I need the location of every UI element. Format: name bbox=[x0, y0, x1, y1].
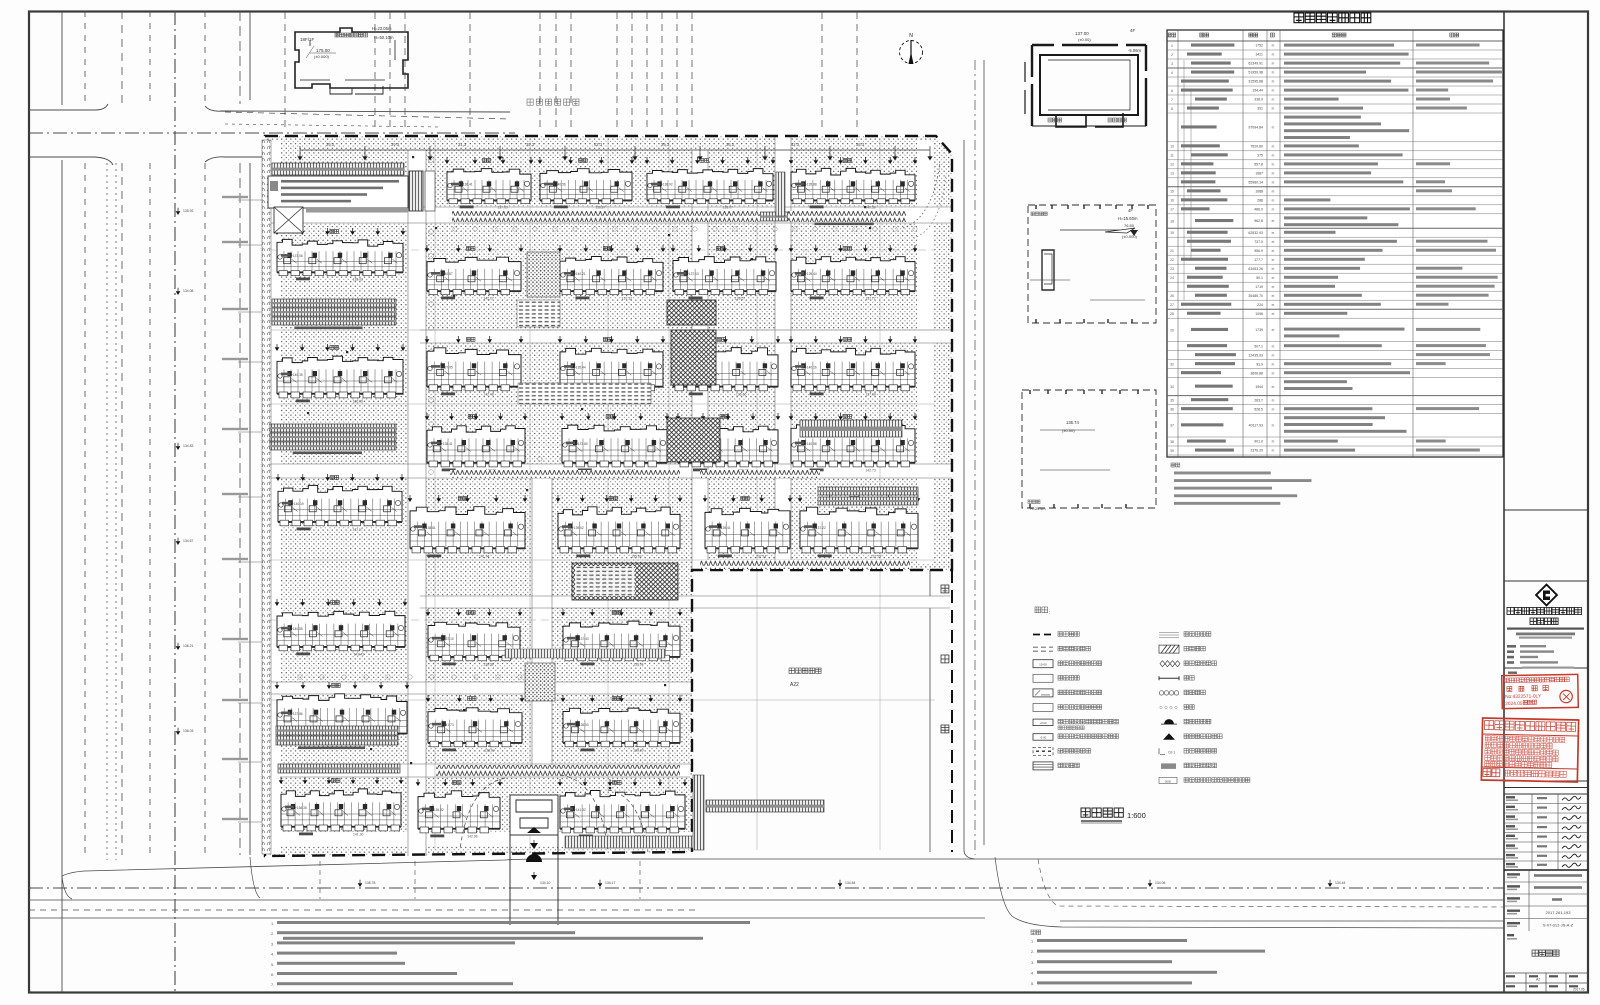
hatched area X3 bbox=[667, 418, 720, 462]
svg-text:224: 224 bbox=[1257, 303, 1263, 307]
svg-text:142.98: 142.98 bbox=[467, 835, 477, 839]
markers along west road bbox=[176, 211, 181, 215]
svg-text:m: m bbox=[1272, 89, 1275, 93]
building B23 bbox=[426, 695, 525, 753]
svg-text:142.73: 142.73 bbox=[865, 469, 875, 473]
legend item R4 bbox=[1159, 676, 1179, 680]
svg-text:137.77: 137.77 bbox=[865, 297, 875, 301]
svg-text:+139.44: +139.44 bbox=[805, 272, 817, 276]
parking P2 bbox=[700, 212, 800, 221]
building B31 bbox=[275, 682, 410, 744]
svg-text:18F/1F: 18F/1F bbox=[300, 37, 315, 42]
svg-text:91.9: 91.9 bbox=[1256, 362, 1263, 366]
svg-text:2.: 2. bbox=[1031, 950, 1034, 954]
building B15 bbox=[676, 413, 781, 473]
svg-text:175.00: 175.00 bbox=[316, 48, 330, 53]
building B8 bbox=[789, 245, 918, 301]
svg-text:1719: 1719 bbox=[1255, 285, 1263, 289]
svg-text:76.50: 76.50 bbox=[1124, 223, 1135, 228]
red stamp: registered architect bbox=[1502, 674, 1579, 708]
svg-text:901.0: 901.0 bbox=[1254, 440, 1263, 444]
svg-text:38: 38 bbox=[1170, 440, 1174, 444]
svg-text:39.3: 39.3 bbox=[526, 142, 535, 147]
label 04-03 parcel bbox=[789, 668, 795, 674]
svg-text:4F: 4F bbox=[1128, 208, 1133, 213]
svg-text:m: m bbox=[1272, 62, 1275, 66]
svg-text:138.08: 138.08 bbox=[483, 663, 493, 667]
svg-text:+136.32: +136.32 bbox=[432, 808, 444, 812]
building B3 bbox=[645, 157, 776, 210]
svg-text:39.3: 39.3 bbox=[661, 142, 670, 147]
svg-text:+140.21: +140.21 bbox=[574, 272, 586, 276]
svg-text:+139.41: +139.41 bbox=[719, 526, 731, 530]
legend item R10 bbox=[1161, 763, 1176, 769]
svg-text:557.8: 557.8 bbox=[1254, 163, 1263, 167]
legend item L2 bbox=[1033, 647, 1053, 651]
legend item R7 bbox=[1161, 723, 1177, 725]
svg-text:3606.88: 3606.88 bbox=[1250, 371, 1263, 375]
svg-text:97094.84: 97094.84 bbox=[1248, 126, 1263, 130]
site boundary dashed line bbox=[265, 136, 952, 856]
trees along roads bbox=[298, 158, 917, 680]
boundary continuation east bbox=[951, 570, 953, 852]
svg-text:+137.06: +137.06 bbox=[291, 254, 303, 258]
detail plan 1 (club) bbox=[1025, 45, 1146, 127]
svg-text:1: 1 bbox=[1171, 44, 1173, 48]
svg-text:H=15.60m: H=15.60m bbox=[1118, 216, 1138, 221]
building B22 bbox=[561, 609, 683, 667]
svg-text:136.99: 136.99 bbox=[353, 400, 363, 404]
svg-text:138.94: 138.94 bbox=[484, 749, 494, 753]
svg-text:737.0: 737.0 bbox=[1254, 240, 1263, 244]
svg-text:55980.14: 55980.14 bbox=[1248, 181, 1263, 185]
existing building NW bbox=[295, 28, 408, 94]
svg-text:0000: 0000 bbox=[1165, 779, 1172, 783]
svg-text:A22: A22 bbox=[790, 682, 799, 688]
legend item R3 bbox=[1160, 661, 1180, 667]
hatched area X4 bbox=[572, 563, 678, 600]
svg-text:34: 34 bbox=[1170, 385, 1174, 389]
svg-text:134.67: 134.67 bbox=[183, 539, 193, 543]
svg-text:5.: 5. bbox=[1031, 982, 1034, 986]
svg-text:136.66: 136.66 bbox=[736, 393, 746, 397]
svg-text:+135.44: +135.44 bbox=[574, 366, 586, 370]
svg-text:5.: 5. bbox=[271, 963, 274, 967]
svg-text:-5.06m: -5.06m bbox=[1128, 48, 1142, 53]
svg-text:m: m bbox=[1272, 190, 1275, 194]
parking P11 bbox=[818, 487, 918, 495]
parking P10 bbox=[800, 420, 902, 437]
svg-text:39.3: 39.3 bbox=[326, 142, 335, 147]
svg-text:32: 32 bbox=[1170, 363, 1174, 367]
svg-text:2024.05: 2024.05 bbox=[1505, 701, 1523, 707]
svg-text:12435.93: 12435.93 bbox=[1248, 353, 1263, 357]
legend item L5 bbox=[1033, 689, 1053, 697]
svg-text:16: 16 bbox=[1170, 199, 1174, 203]
svg-text:507.1: 507.1 bbox=[1254, 344, 1263, 348]
svg-text:177.7: 177.7 bbox=[1254, 258, 1263, 262]
dimension line top bbox=[298, 146, 932, 160]
svg-text:136.74: 136.74 bbox=[1066, 420, 1079, 425]
parking P14 bbox=[276, 736, 398, 745]
parking P13 bbox=[276, 726, 398, 735]
svg-text:63453.26: 63453.26 bbox=[1248, 267, 1263, 271]
project info rows bbox=[1504, 870, 1588, 931]
svg-text:+140.85: +140.85 bbox=[291, 627, 303, 631]
svg-text:138.09: 138.09 bbox=[633, 749, 643, 753]
svg-text:+136.93: +136.93 bbox=[577, 723, 589, 727]
svg-text:134.17: 134.17 bbox=[605, 881, 615, 885]
building B18 bbox=[556, 495, 683, 559]
building B16 bbox=[789, 413, 918, 473]
svg-text:m: m bbox=[1272, 240, 1275, 244]
svg-text:m: m bbox=[1272, 172, 1275, 176]
road intersection top-left bbox=[29, 104, 515, 165]
parking strips near S boundary bbox=[565, 836, 695, 848]
svg-text:134.84: 134.84 bbox=[845, 881, 855, 885]
svg-text:+137.22: +137.22 bbox=[814, 526, 826, 530]
svg-text:4.: 4. bbox=[1031, 971, 1034, 975]
svg-text:1:600: 1:600 bbox=[1127, 811, 1146, 820]
entrance arcs bbox=[460, 775, 648, 852]
svg-text:142.48: 142.48 bbox=[483, 393, 493, 397]
svg-text:27: 27 bbox=[1170, 303, 1174, 307]
svg-text:m: m bbox=[1272, 258, 1275, 262]
building B6 bbox=[558, 245, 666, 301]
building B28 bbox=[275, 344, 406, 404]
svg-text:136.03: 136.03 bbox=[183, 729, 193, 733]
svg-text:141.30: 141.30 bbox=[353, 833, 363, 837]
road south bbox=[29, 857, 1504, 928]
building B27 bbox=[275, 228, 406, 282]
svg-text:m: m bbox=[1272, 294, 1275, 298]
internal roads bbox=[265, 136, 952, 856]
north arrow bbox=[900, 40, 923, 64]
svg-text:+138.92: +138.92 bbox=[661, 183, 673, 187]
company logo bbox=[1536, 585, 1557, 606]
svg-text:-0.00: -0.00 bbox=[1040, 736, 1047, 740]
signature table bbox=[1504, 794, 1588, 870]
svg-text:(±0.00): (±0.00) bbox=[1062, 428, 1075, 433]
svg-text:m: m bbox=[1272, 208, 1275, 212]
svg-text:+137.86: +137.86 bbox=[291, 712, 303, 716]
svg-text:+140.58: +140.58 bbox=[805, 442, 817, 446]
svg-text:(±0.00): (±0.00) bbox=[1078, 37, 1091, 42]
road label top bbox=[527, 99, 533, 105]
svg-text:23: 23 bbox=[1170, 267, 1174, 271]
detail plan 2 bbox=[1028, 205, 1156, 323]
svg-text:42.3: 42.3 bbox=[791, 142, 800, 147]
svg-text:+140.87: +140.87 bbox=[441, 272, 453, 276]
svg-text:m: m bbox=[1272, 126, 1275, 130]
svg-text:1.: 1. bbox=[1031, 940, 1034, 944]
CAD grid lines bbox=[268, 140, 935, 850]
svg-text:12: 12 bbox=[1170, 163, 1174, 167]
svg-text:m: m bbox=[1272, 249, 1275, 253]
svg-text:m: m bbox=[1272, 145, 1275, 149]
hedge strips bbox=[452, 211, 760, 222]
west leaders bbox=[238, 199, 262, 201]
svg-text:H=50.10m: H=50.10m bbox=[374, 35, 394, 40]
svg-text:338.9: 338.9 bbox=[1254, 98, 1263, 102]
building B29 bbox=[276, 474, 405, 532]
svg-text:8: 8 bbox=[1171, 107, 1173, 111]
svg-text:m: m bbox=[1272, 53, 1275, 57]
svg-text:137.00: 137.00 bbox=[1075, 31, 1089, 36]
svg-text:3: 3 bbox=[1171, 62, 1173, 66]
building B26 bbox=[558, 779, 688, 839]
building B4 bbox=[789, 157, 918, 210]
svg-text:139.57: 139.57 bbox=[735, 297, 745, 301]
svg-text:62349.91: 62349.91 bbox=[1248, 62, 1263, 66]
building B9 bbox=[425, 336, 524, 397]
svg-text:134.44: 134.44 bbox=[1335, 881, 1345, 885]
svg-text:S-07-012-JS-A-Z: S-07-012-JS-A-Z bbox=[1543, 923, 1574, 928]
svg-text:m: m bbox=[1272, 312, 1275, 316]
svg-text:134.06: 134.06 bbox=[1155, 881, 1165, 885]
legend item R8 bbox=[1163, 733, 1175, 740]
svg-text:m: m bbox=[1272, 80, 1275, 84]
building B2 bbox=[538, 157, 635, 210]
svg-text:m: m bbox=[1272, 163, 1275, 167]
notes bottom-middle bbox=[1031, 930, 1035, 934]
svg-text:37: 37 bbox=[1170, 424, 1174, 428]
building B19 bbox=[703, 495, 793, 559]
legend item L7 bbox=[1033, 719, 1053, 726]
svg-text:35: 35 bbox=[1170, 399, 1174, 403]
svg-text:50.1: 50.1 bbox=[1256, 276, 1263, 280]
svg-text:137.08: 137.08 bbox=[865, 393, 875, 397]
hatched area X2 bbox=[671, 330, 716, 385]
parking P7 bbox=[270, 424, 396, 432]
parking P16 bbox=[706, 800, 824, 812]
svg-text:1.: 1. bbox=[271, 922, 274, 926]
svg-text:36: 36 bbox=[1170, 408, 1174, 412]
svg-text:26: 26 bbox=[1170, 294, 1174, 298]
svg-text:m: m bbox=[1272, 344, 1275, 348]
road name east bbox=[941, 585, 949, 593]
svg-text:m: m bbox=[1272, 285, 1275, 289]
svg-text:7: 7 bbox=[1171, 98, 1173, 102]
legend item R6 bbox=[1160, 706, 1162, 708]
svg-text:4F: 4F bbox=[1130, 28, 1136, 33]
building B10 bbox=[558, 336, 666, 397]
svg-text:m: m bbox=[1272, 328, 1275, 332]
svg-text:137.12: 137.12 bbox=[622, 297, 632, 301]
company name bbox=[1507, 608, 1514, 615]
svg-text:m: m bbox=[1272, 267, 1275, 271]
svg-text:m: m bbox=[1272, 407, 1275, 411]
building B30 bbox=[275, 599, 408, 657]
svg-text:36.3: 36.3 bbox=[726, 142, 735, 147]
parking P9 bbox=[270, 442, 396, 450]
hatched area X1 bbox=[667, 300, 716, 325]
svg-text:528.5: 528.5 bbox=[1254, 407, 1263, 411]
site ground stipple bbox=[265, 136, 952, 856]
svg-text:+141.73: +141.73 bbox=[442, 723, 454, 727]
svg-text:6: 6 bbox=[1171, 89, 1173, 93]
road network west bbox=[62, 11, 250, 992]
building B14 bbox=[560, 413, 670, 473]
legend item L6 bbox=[1033, 704, 1053, 712]
legend item R11 bbox=[1159, 778, 1177, 784]
svg-text:42.3: 42.3 bbox=[594, 142, 603, 147]
svg-text:136.21: 136.21 bbox=[183, 644, 193, 648]
svg-text:4: 4 bbox=[1171, 71, 1173, 75]
parking P3 bbox=[795, 212, 903, 221]
svg-text:m: m bbox=[1272, 231, 1275, 235]
legend item L8 bbox=[1033, 734, 1053, 741]
svg-text:1752: 1752 bbox=[1255, 44, 1263, 48]
svg-text:+140.35: +140.35 bbox=[291, 373, 303, 377]
svg-text:m: m bbox=[1272, 181, 1275, 185]
svg-text:m: m bbox=[1272, 276, 1275, 280]
svg-text:142.17: 142.17 bbox=[483, 297, 493, 301]
legend item L10 bbox=[1033, 762, 1053, 770]
building B13 bbox=[425, 413, 528, 473]
svg-text:+136.41: +136.41 bbox=[461, 183, 473, 187]
svg-text:m: m bbox=[1272, 385, 1275, 389]
svg-text:H=25.4m: H=25.4m bbox=[1030, 507, 1046, 511]
technical economic indicators table bbox=[1294, 13, 1304, 23]
title block divider bbox=[1503, 12, 1505, 993]
svg-text:+0.00: +0.00 bbox=[1039, 721, 1047, 725]
building B25 bbox=[416, 779, 503, 839]
svg-text:39: 39 bbox=[1170, 449, 1174, 453]
svg-text:141.94: 141.94 bbox=[479, 555, 489, 559]
svg-text:m: m bbox=[1272, 353, 1275, 357]
svg-text:2017.06: 2017.06 bbox=[1573, 988, 1585, 992]
svg-text:18: 18 bbox=[1170, 219, 1174, 223]
parking P8 bbox=[270, 433, 396, 441]
svg-text:139.04: 139.04 bbox=[633, 663, 643, 667]
svg-text:6.: 6. bbox=[271, 973, 274, 977]
legend item R9 bbox=[1159, 748, 1165, 754]
svg-text:m: m bbox=[1272, 44, 1275, 48]
svg-text:962.8: 962.8 bbox=[1254, 219, 1263, 223]
svg-text:134.08: 134.08 bbox=[183, 289, 193, 293]
red stamp: design release seal bbox=[1481, 718, 1578, 782]
svg-text:m: m bbox=[1272, 371, 1275, 375]
svg-text:2376.29: 2376.29 bbox=[1250, 449, 1263, 453]
svg-text:40117.93: 40117.93 bbox=[1249, 424, 1263, 428]
svg-text:1944: 1944 bbox=[1255, 385, 1263, 389]
svg-text:+139.52: +139.52 bbox=[572, 526, 584, 530]
svg-text:137.25: 137.25 bbox=[871, 555, 881, 559]
svg-text:141.17: 141.17 bbox=[352, 528, 362, 532]
svg-text:263.7: 263.7 bbox=[1254, 398, 1263, 402]
svg-text:1088: 1088 bbox=[1255, 190, 1263, 194]
legend item L9 bbox=[1033, 747, 1053, 755]
svg-text:29: 29 bbox=[1170, 328, 1174, 332]
svg-text:956.9: 956.9 bbox=[1254, 249, 1263, 253]
svg-text:N: N bbox=[909, 33, 913, 39]
drainage points bbox=[284, 156, 871, 789]
svg-text:A2: A2 bbox=[1536, 978, 1540, 982]
building B5 bbox=[425, 245, 524, 301]
svg-text:+137.80: +137.80 bbox=[576, 442, 588, 446]
svg-text:154.44: 154.44 bbox=[1252, 89, 1263, 93]
south entrance gate bbox=[510, 795, 558, 925]
svg-text:138.07: 138.07 bbox=[723, 206, 733, 210]
svg-text:31.3: 31.3 bbox=[458, 142, 467, 147]
svg-text:(±0.000): (±0.000) bbox=[314, 54, 330, 59]
detail plan 3 bbox=[1022, 390, 1156, 508]
svg-text:+135.41: +135.41 bbox=[441, 442, 453, 446]
svg-text:+137.10: +137.10 bbox=[442, 637, 454, 641]
svg-text:+141.32: +141.32 bbox=[574, 808, 586, 812]
building B11 bbox=[671, 336, 781, 397]
svg-text:3.: 3. bbox=[271, 942, 274, 946]
legend bbox=[1035, 607, 1041, 613]
parking P1 bbox=[272, 163, 404, 175]
svg-text:4.: 4. bbox=[271, 953, 274, 957]
drawing name cell bbox=[1507, 934, 1514, 936]
svg-text:+138.81: +138.81 bbox=[424, 526, 436, 530]
svg-text:21: 21 bbox=[1170, 249, 1174, 253]
building B20 bbox=[798, 495, 921, 559]
svg-text:391: 391 bbox=[1257, 107, 1263, 111]
svg-text:51959.98: 51959.98 bbox=[1248, 71, 1263, 75]
svg-text:11: 11 bbox=[1170, 154, 1174, 158]
svg-text:7.: 7. bbox=[271, 983, 274, 987]
transformer X-box bbox=[274, 207, 303, 233]
entrance symbols bbox=[527, 827, 541, 833]
svg-text:31595.88: 31595.88 bbox=[1248, 80, 1263, 84]
dashed paving areas bbox=[517, 300, 560, 327]
legend item L3 bbox=[1033, 660, 1053, 668]
svg-text::: : bbox=[1049, 610, 1050, 616]
building B24 bbox=[561, 695, 683, 753]
svg-text:+137.95: +137.95 bbox=[441, 366, 453, 370]
building B7 bbox=[671, 245, 779, 301]
utility lines above site bbox=[285, 12, 857, 128]
svg-text:+135.88: +135.88 bbox=[805, 183, 817, 187]
building B32 bbox=[279, 777, 404, 837]
svg-text:m: m bbox=[1272, 440, 1275, 444]
legend item L4 bbox=[1033, 674, 1053, 682]
building B17 bbox=[408, 495, 528, 559]
svg-text:m: m bbox=[1272, 107, 1275, 111]
svg-text:+137.13: +137.13 bbox=[687, 272, 699, 276]
svg-text:135.92: 135.92 bbox=[183, 209, 193, 213]
parking P12 bbox=[818, 497, 918, 505]
svg-text:No:4322571-0LY: No:4322571-0LY bbox=[1505, 693, 1542, 700]
building B1 bbox=[445, 157, 534, 210]
NE corner details bbox=[776, 172, 785, 216]
svg-text:28: 28 bbox=[1170, 312, 1174, 316]
svg-text:+136.35: +136.35 bbox=[295, 806, 307, 810]
parking P15 bbox=[278, 764, 400, 773]
svg-text:135.63: 135.63 bbox=[353, 278, 363, 282]
svg-text:m: m bbox=[1272, 449, 1275, 453]
svg-text:m: m bbox=[1272, 424, 1275, 428]
legend item L1 bbox=[1033, 634, 1053, 636]
svg-text:+137.43: +137.43 bbox=[577, 637, 589, 641]
svg-text:2017-261-193: 2017-261-193 bbox=[1546, 910, 1572, 915]
parking P4 bbox=[272, 299, 396, 307]
svg-text:288: 288 bbox=[1257, 199, 1263, 203]
svg-text:m: m bbox=[1272, 71, 1275, 75]
parking P6 bbox=[272, 317, 396, 325]
drawing title bbox=[1081, 808, 1090, 817]
svg-text:13: 13 bbox=[1170, 172, 1174, 176]
west greenbelt strip bbox=[262, 140, 271, 854]
svg-text:+140.16: +140.16 bbox=[805, 366, 817, 370]
svg-text:H=23.05m: H=23.05m bbox=[372, 26, 392, 31]
svg-text:19: 19 bbox=[1170, 231, 1174, 235]
svg-text:22: 22 bbox=[1170, 258, 1174, 262]
